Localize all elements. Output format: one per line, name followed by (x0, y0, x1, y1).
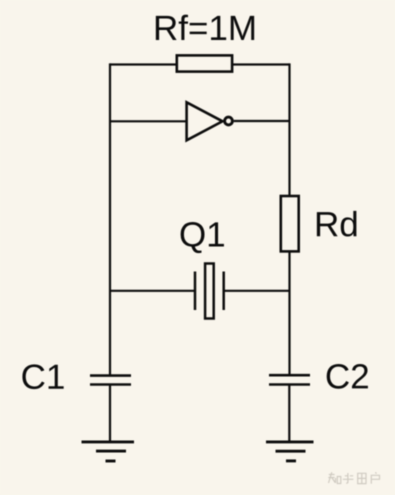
wire top net (110, 63, 290, 65)
wire crystal right (224, 290, 290, 292)
capacitor C1 top plate (90, 374, 131, 377)
watermark 知乎用户 (328, 472, 379, 484)
label C2 (327, 364, 368, 389)
capacitor C1 bottom plate (90, 383, 131, 386)
capacitor C2 bottom plate (269, 383, 310, 386)
label C1 (22, 364, 63, 389)
resistor Rd (281, 196, 299, 251)
resistor Rf (177, 55, 232, 71)
ground (C1) (82, 442, 135, 461)
label Q1 (181, 222, 224, 253)
op-amp U1 inverter triangle (187, 102, 223, 140)
crystal Q1 right electrode (222, 272, 225, 311)
wire C1 to ground (109, 385, 111, 442)
wire left vertical (inverter input net) (109, 63, 111, 375)
capacitor C2 top plate (269, 374, 310, 377)
ground (C2) (266, 442, 314, 461)
wire right vertical (inverter output net) (288, 63, 290, 374)
wire C2 to ground (288, 385, 290, 442)
inverter output bubble (225, 117, 233, 125)
wire inverter input (110, 120, 187, 122)
crystal Q1 left electrode (194, 272, 197, 311)
label Rf=1M (156, 15, 254, 40)
wire crystal left (110, 290, 195, 292)
label Rd (317, 211, 357, 237)
wire inverter output (234, 120, 290, 122)
crystal Q1 body (205, 264, 214, 319)
